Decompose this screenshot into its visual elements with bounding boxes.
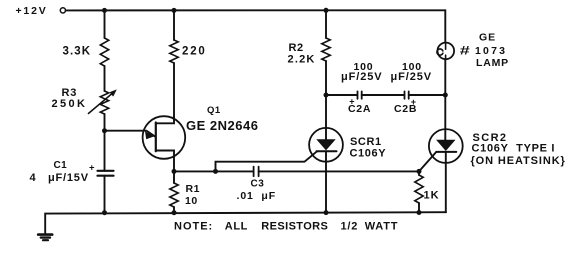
svg-text:250K: 250K bbox=[52, 98, 88, 110]
svg-text:3.3K: 3.3K bbox=[63, 45, 92, 57]
node Q1 base1 junction bbox=[172, 169, 177, 174]
svg-text:C1: C1 bbox=[54, 160, 68, 171]
node top rail / R2 junction bbox=[324, 8, 329, 13]
svg-text:+: + bbox=[89, 163, 95, 174]
svg-text:C106Y: C106Y bbox=[350, 148, 387, 160]
svg-text:ALL: ALL bbox=[225, 221, 248, 233]
svg-text:1K: 1K bbox=[424, 190, 440, 202]
svg-text:NOTE:: NOTE: bbox=[174, 221, 213, 233]
capacitor C1 bbox=[30, 160, 114, 184]
svg-text:SCR1: SCR1 bbox=[350, 136, 382, 148]
wire base1 to R1 bbox=[173, 171, 175, 183]
node cap rail / lamp column bbox=[443, 93, 448, 98]
svg-text:GE: GE bbox=[479, 32, 496, 44]
svg-text:C2B: C2B bbox=[394, 103, 417, 115]
wire SCR1 anode bbox=[325, 95, 327, 139]
wire R2 branch bbox=[325, 10, 327, 38]
wire cap rail left bbox=[326, 94, 357, 96]
node top rail / 3.3K junction bbox=[102, 8, 107, 13]
wire base1 node to C3 bbox=[174, 170, 253, 172]
svg-text:.01 μF: .01 μF bbox=[237, 190, 277, 202]
wire SCR1 cathode to bottom rail bbox=[325, 151, 327, 212]
lamp GE 1073 bbox=[437, 32, 509, 70]
wire R1 to bottom rail bbox=[173, 207, 175, 213]
wire wiper to C1 bbox=[104, 131, 106, 171]
resistor 3.3K bbox=[63, 38, 109, 66]
wire C3 to SCR2 gate node bbox=[259, 170, 419, 172]
node C1 / bottom rail bbox=[102, 210, 107, 215]
wire SCR2 gate bbox=[419, 152, 436, 172]
wire SCR1 gate bbox=[216, 151, 318, 171]
svg-text:4 μF/15V: 4 μF/15V bbox=[30, 172, 89, 184]
node SCR1 / bottom rail bbox=[324, 210, 329, 215]
ground bbox=[38, 235, 52, 241]
svg-text:μF/25V: μF/25V bbox=[391, 71, 432, 83]
svg-text:LAMP: LAMP bbox=[476, 57, 509, 69]
resistor R2 2.2K bbox=[288, 38, 331, 66]
capacitor C2B 100uF/25V bbox=[391, 61, 432, 115]
thyristor SCR1 C106Y bbox=[309, 128, 386, 162]
wire R2 to cap rail bbox=[325, 61, 327, 95]
wire lamp to cap rail bbox=[444, 59, 446, 95]
wire top rail bbox=[66, 9, 445, 11]
svg-text:2.2K: 2.2K bbox=[288, 54, 316, 66]
capacitor C3 .01uF bbox=[237, 167, 277, 202]
wire cap rail node to SCR2 anode bbox=[444, 95, 446, 140]
potentiometer R3 250K bbox=[52, 87, 117, 114]
resistor 220 bbox=[170, 40, 207, 63]
wire 3.3K branch bbox=[104, 10, 106, 38]
capacitor C2A 100uF/25V bbox=[341, 61, 382, 115]
wire cap rail right bbox=[409, 94, 446, 96]
svg-text:R2: R2 bbox=[289, 42, 304, 54]
wire 3.3K to R3 bbox=[104, 66, 106, 91]
wire bottom rail bbox=[45, 212, 446, 234]
svg-text:220: 220 bbox=[182, 45, 207, 57]
svg-text:C2A: C2A bbox=[348, 103, 371, 115]
node 1K / bottom rail bbox=[417, 210, 422, 215]
wire 220 branch bbox=[173, 10, 175, 40]
wire SCR2 cathode to bottom rail bbox=[445, 152, 447, 212]
svg-text:1/2: 1/2 bbox=[341, 221, 359, 233]
svg-text:+12V: +12V bbox=[16, 5, 48, 17]
wire emitter from wiper bbox=[105, 131, 156, 137]
svg-text:GE 2N2646: GE 2N2646 bbox=[186, 118, 258, 133]
svg-text:R1: R1 bbox=[186, 183, 200, 195]
node SCR2 gate / 1K junction bbox=[417, 169, 422, 174]
wire gate node to 1K bbox=[418, 171, 420, 175]
node top rail / 220 junction bbox=[172, 8, 177, 13]
wire cap rail middle bbox=[362, 94, 405, 96]
svg-text:C3: C3 bbox=[251, 179, 265, 190]
svg-text:1073: 1073 bbox=[475, 45, 507, 57]
svg-text:{ON HEATSINK}: {ON HEATSINK} bbox=[471, 155, 566, 167]
node C3 line / gate stub junction bbox=[213, 169, 218, 174]
svg-text:μF/25V: μF/25V bbox=[341, 71, 382, 83]
node R1 / bottom rail bbox=[172, 210, 177, 215]
wire C1 to bottom rail bbox=[104, 176, 106, 213]
transistor Q1 GE 2N2646 bbox=[143, 105, 259, 171]
svg-text:C106Y TYPE I: C106Y TYPE I bbox=[472, 142, 556, 154]
wire 220 to Q1 base2 bbox=[173, 63, 175, 117]
node wiper junction bbox=[102, 128, 107, 133]
svg-text:Q1: Q1 bbox=[207, 105, 221, 116]
node R2 / cap rail / SCR1 anode bbox=[324, 93, 329, 98]
+12V supply terminal bbox=[16, 5, 66, 17]
svg-text:#: # bbox=[460, 44, 471, 57]
svg-text:WATT: WATT bbox=[365, 221, 399, 233]
svg-text:RESISTORS: RESISTORS bbox=[261, 221, 328, 233]
wire lamp branch from top rail bbox=[444, 10, 446, 42]
resistor R1 10 bbox=[170, 183, 200, 207]
wire R3 to wiper node bbox=[104, 114, 106, 131]
wire 1K to bottom rail bbox=[418, 203, 420, 213]
svg-text:10: 10 bbox=[185, 195, 198, 207]
thyristor SCR2 C106Y bbox=[429, 129, 566, 167]
resistor 1K bbox=[415, 175, 440, 203]
